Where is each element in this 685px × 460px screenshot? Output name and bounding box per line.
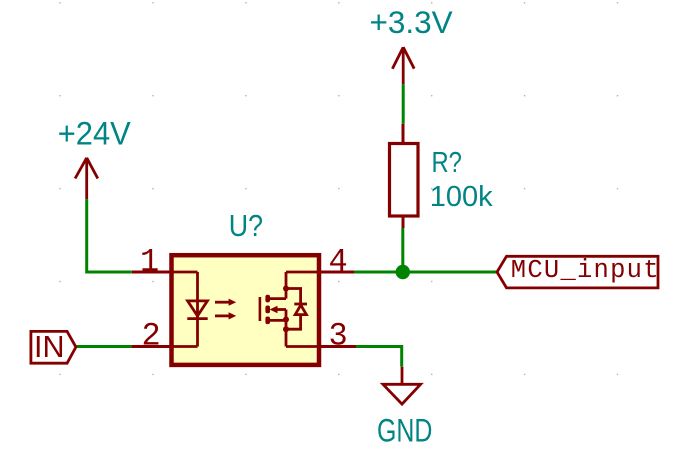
svg-text:3: 3 (329, 317, 348, 354)
svg-text:4: 4 (329, 243, 348, 280)
svg-text:2: 2 (142, 317, 161, 354)
svg-text:R?: R? (432, 146, 462, 179)
svg-text:U?: U? (229, 209, 263, 243)
svg-text:+3.3V: +3.3V (370, 4, 453, 40)
svg-text:1: 1 (140, 243, 159, 280)
svg-text:IN: IN (34, 330, 65, 364)
svg-text:+24V: +24V (58, 115, 131, 152)
svg-text:GND: GND (377, 413, 432, 449)
svg-text:100k: 100k (430, 181, 493, 213)
svg-text:MCU_input: MCU_input (511, 256, 660, 285)
